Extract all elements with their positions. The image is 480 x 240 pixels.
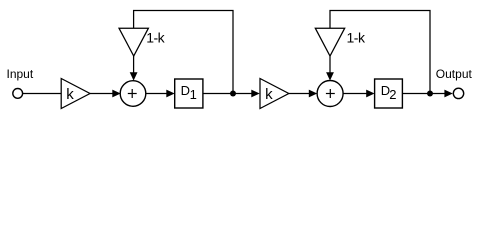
amplifier K2	[260, 79, 289, 109]
feedback wire stage1	[134, 11, 233, 94]
svg-text:k: k	[265, 86, 273, 103]
wire 1-k apex to S1 top	[133, 56, 135, 73]
wire 1-k apex to S2 top	[329, 56, 331, 73]
svg-text:D: D	[181, 83, 190, 98]
wire input to amplifier k1	[23, 93, 61, 95]
svg-text:1-k: 1-k	[146, 30, 165, 46]
feedback wire stage2	[330, 11, 430, 94]
output terminal	[453, 88, 463, 98]
wire D1 to amplifier K2	[203, 93, 252, 95]
summing junction S2	[317, 81, 343, 107]
svg-text:1-k: 1-k	[347, 30, 366, 46]
delay D2	[375, 79, 403, 108]
svg-text:2: 2	[389, 87, 396, 102]
svg-text:Output: Output	[436, 67, 473, 81]
wire D2 to output	[402, 93, 444, 95]
amplifier K1	[61, 79, 90, 109]
input terminal	[13, 89, 23, 99]
node junction J1	[230, 91, 236, 97]
svg-text:Input: Input	[7, 67, 34, 81]
svg-text:k: k	[66, 86, 74, 103]
amplifier 1-k stage1	[119, 28, 148, 56]
summing junction S1	[120, 81, 146, 107]
wire k2 to summer S2	[289, 93, 310, 95]
amplifier 1-k stage2	[315, 28, 344, 56]
wire S2 to delay D2	[343, 93, 367, 95]
wire k1 to summer S1	[90, 93, 113, 95]
node junction J2	[427, 91, 433, 97]
wire S1 to delay D1	[146, 93, 167, 95]
svg-text:1: 1	[190, 87, 197, 102]
delay D1	[175, 79, 203, 108]
